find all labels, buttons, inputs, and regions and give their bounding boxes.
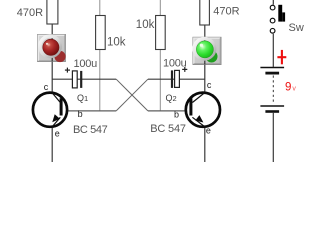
svg-text:470R: 470R: [17, 7, 43, 19]
svg-text:Q1: Q1: [77, 93, 88, 103]
svg-text:c: c: [44, 82, 49, 92]
svg-text:100u: 100u: [74, 58, 98, 70]
svg-text:Q2: Q2: [166, 93, 177, 103]
svg-text:100u: 100u: [163, 57, 187, 69]
svg-text:BC 547: BC 547: [73, 124, 108, 136]
svg-text:e: e: [55, 128, 60, 138]
svg-text:9: 9: [285, 82, 291, 94]
svg-text:10k: 10k: [107, 36, 126, 48]
svg-text:c: c: [207, 80, 212, 90]
svg-text:10k: 10k: [136, 19, 155, 31]
svg-text:470R: 470R: [213, 5, 239, 17]
svg-text:Sw: Sw: [289, 22, 304, 34]
svg-text:b: b: [174, 110, 179, 120]
svg-text:BC 547: BC 547: [150, 123, 186, 135]
svg-text:v: v: [292, 85, 296, 92]
svg-text:b: b: [78, 109, 83, 119]
svg-text:e: e: [206, 125, 211, 135]
